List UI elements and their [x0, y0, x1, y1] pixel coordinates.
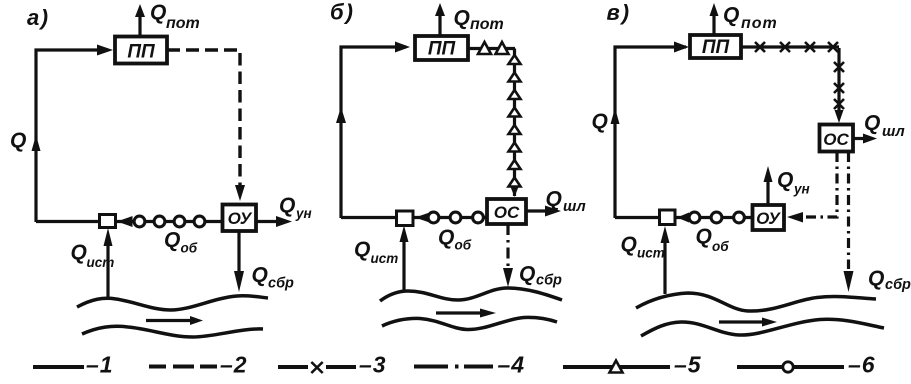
svg-text:Q: Q	[164, 229, 180, 252]
svg-text:Q: Q	[454, 7, 470, 30]
svg-text:Q: Q	[279, 194, 295, 217]
svg-text:ПП: ПП	[428, 39, 456, 60]
svg-text:б): б)	[330, 0, 355, 25]
svg-text:об: об	[712, 239, 729, 254]
svg-text:ОС: ОС	[494, 203, 520, 222]
svg-text:Q: Q	[252, 264, 268, 287]
svg-text:–4: –4	[498, 352, 526, 378]
svg-text:пот: пот	[741, 15, 778, 32]
svg-text:в): в)	[607, 0, 632, 25]
svg-text:а): а)	[27, 5, 50, 30]
svg-text:Q: Q	[438, 226, 454, 249]
svg-text:Q: Q	[864, 112, 880, 135]
svg-text:–1: –1	[86, 352, 114, 378]
svg-text:шл: шл	[563, 198, 586, 215]
svg-text:сбр: сбр	[268, 276, 294, 292]
svg-text:ОУ: ОУ	[756, 209, 781, 228]
svg-text:Q: Q	[723, 4, 739, 27]
svg-text:шл: шл	[882, 123, 905, 140]
svg-text:пот: пот	[470, 16, 504, 33]
svg-text:ОС: ОС	[823, 130, 849, 149]
svg-text:пот: пот	[166, 15, 200, 32]
svg-text:ун: ун	[793, 182, 810, 197]
svg-text:Q: Q	[592, 110, 608, 133]
svg-text:об: об	[455, 238, 472, 253]
svg-text:Q: Q	[71, 241, 87, 264]
svg-text:–5: –5	[674, 352, 702, 378]
svg-text:сбр: сбр	[536, 273, 562, 289]
svg-text:Q: Q	[621, 233, 637, 256]
svg-text:Q: Q	[354, 238, 370, 261]
svg-text:Q: Q	[696, 225, 712, 248]
svg-text:–2: –2	[220, 352, 248, 378]
svg-text:Q: Q	[777, 169, 793, 192]
svg-text:ОУ: ОУ	[228, 209, 253, 228]
svg-text:Q: Q	[546, 188, 562, 211]
svg-text:об: об	[181, 241, 198, 256]
svg-text:ПП: ПП	[702, 37, 730, 58]
svg-text:ист: ист	[87, 255, 115, 270]
svg-text:–3: –3	[359, 352, 387, 378]
svg-text:ПП: ПП	[127, 42, 155, 63]
svg-text:ист: ист	[637, 246, 665, 261]
svg-text:сбр: сбр	[885, 277, 911, 293]
svg-text:Q: Q	[10, 129, 26, 152]
svg-text:Q: Q	[868, 267, 884, 290]
svg-text:ист: ист	[371, 251, 399, 266]
svg-text:Q: Q	[519, 263, 535, 286]
svg-text:Q: Q	[150, 1, 166, 24]
svg-text:–6: –6	[848, 352, 876, 378]
svg-text:ун: ун	[295, 206, 312, 221]
